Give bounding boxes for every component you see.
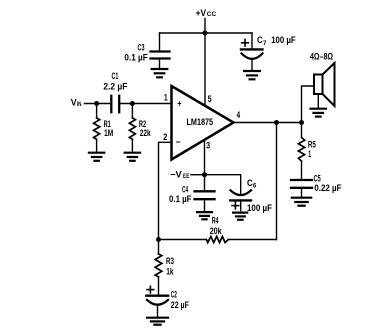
svg-text:R4: R4 <box>212 215 219 225</box>
speaker LS1 <box>314 63 335 108</box>
svg-text:0.1 µF: 0.1 µF <box>169 194 192 204</box>
capacitor C1 <box>111 96 119 112</box>
svg-text:+V: +V <box>196 8 207 18</box>
resistor R2 <box>129 104 135 152</box>
ground (C5) <box>292 198 311 206</box>
svg-text:7: 7 <box>263 40 267 47</box>
wire pin 3 <box>204 141 206 175</box>
capacitor C3 <box>151 33 170 68</box>
label C7 <box>257 35 267 47</box>
svg-text:LM1875: LM1875 <box>187 117 214 128</box>
svg-text:4: 4 <box>237 110 241 120</box>
wire -VEE to C6 <box>205 175 241 195</box>
svg-text:−V: −V <box>170 170 182 180</box>
svg-text:1: 1 <box>308 149 311 159</box>
svg-text:EE: EE <box>183 173 190 180</box>
label + (C2) <box>147 286 154 293</box>
svg-text:1: 1 <box>164 92 168 102</box>
svg-text:100 µF: 100 µF <box>247 203 272 213</box>
junction dot pin1 node <box>130 101 135 106</box>
ground (C2) <box>147 318 168 325</box>
svg-text:2.2 µF: 2.2 µF <box>103 81 127 91</box>
wire VCC stub <box>204 19 206 34</box>
ground (C3) <box>152 69 168 77</box>
svg-text:0.1 µF: 0.1 µF <box>124 52 148 62</box>
wire -VEE stub <box>191 174 205 176</box>
resistor R4 <box>206 236 228 242</box>
junction dot -VEE node <box>202 172 207 177</box>
svg-text:C1: C1 <box>112 71 119 81</box>
capacitor C4 <box>195 175 215 211</box>
junction dot feedback node <box>274 120 279 125</box>
capacitor C5 <box>291 180 312 197</box>
svg-text:+: + <box>177 98 181 108</box>
wire bottom rail right <box>228 239 276 241</box>
label -VEE <box>170 170 190 180</box>
svg-text:22 µF: 22 µF <box>171 300 189 310</box>
wire top rail <box>160 32 253 34</box>
resistor R5 <box>298 123 304 179</box>
svg-text:22k: 22k <box>140 128 152 138</box>
capacitor C2 <box>146 296 168 317</box>
svg-text:6: 6 <box>253 183 257 190</box>
label +VCC <box>196 8 217 18</box>
svg-text:C3: C3 <box>138 42 145 52</box>
svg-text:20k: 20k <box>210 226 223 236</box>
ground (C6) <box>233 213 247 220</box>
wire pin 2 <box>159 142 172 239</box>
svg-text:IN: IN <box>77 101 82 108</box>
junction dot input node <box>94 101 99 106</box>
wire input right <box>120 103 171 105</box>
junction dot VCC node <box>203 31 208 36</box>
svg-text:0.22 µF: 0.22 µF <box>314 183 342 193</box>
svg-text:100 µF: 100 µF <box>271 35 296 45</box>
resistor R1 <box>94 104 100 152</box>
svg-text:V: V <box>71 98 77 108</box>
svg-text:R3: R3 <box>166 256 174 266</box>
label C6 <box>247 178 257 190</box>
ground (C4) <box>197 212 212 219</box>
svg-text:4Ω–8Ω: 4Ω–8Ω <box>310 51 333 61</box>
resistor R3 <box>155 240 162 295</box>
junction dot inverting node <box>156 237 161 242</box>
svg-text:3: 3 <box>206 141 210 151</box>
op-amp U1 LM1875 <box>172 86 234 160</box>
capacitor C7 <box>241 33 263 70</box>
wire pin 5 <box>204 33 206 105</box>
svg-text:1M: 1M <box>104 128 113 138</box>
label + (C6) <box>232 202 239 209</box>
capacitor C6 <box>230 190 251 210</box>
svg-text:5: 5 <box>208 94 212 104</box>
wire input left <box>85 103 111 105</box>
svg-text:C2: C2 <box>171 289 177 299</box>
junction dot output node <box>299 120 304 125</box>
wire feedback vertical <box>276 123 278 240</box>
svg-text:1k: 1k <box>166 266 174 276</box>
svg-text:CC: CC <box>207 11 217 18</box>
svg-text:−: − <box>176 137 181 147</box>
svg-text:2: 2 <box>163 132 167 142</box>
wire speaker <box>302 86 315 123</box>
ground (C7) <box>244 71 260 79</box>
ground (speaker) <box>311 109 327 117</box>
wire output <box>234 122 302 124</box>
wire bottom rail left <box>159 239 207 241</box>
ground (R1) <box>89 153 104 161</box>
ground (R2) <box>125 153 140 161</box>
svg-text:R5: R5 <box>308 140 316 150</box>
label + (C7) <box>242 40 249 47</box>
label VIN <box>71 98 82 108</box>
